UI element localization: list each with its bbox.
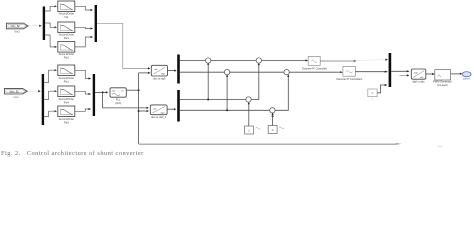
label of K2 bbox=[279, 127, 284, 129]
sum S2 bbox=[224, 70, 229, 75]
svg-text:Fltr2: Fltr2 bbox=[64, 55, 70, 59]
label SecondOrder Fltr4 bbox=[59, 97, 75, 104]
filter F4 (SecondOrder Fla1) bbox=[58, 65, 75, 76]
vertical wire W4 branch up to sum S2 bbox=[226, 76, 228, 111]
wire W2 (Vq B2) bar B1 to sum S2, S6, PI2 bbox=[180, 71, 342, 73]
port tick mux M3 input1 bbox=[385, 59, 388, 61]
wire K2 up to sum S5 bbox=[272, 114, 274, 126]
wire M1 to abc-to-dq0 (abc input) bbox=[97, 24, 148, 69]
demux bar D2 bbox=[42, 74, 44, 125]
wire U3 to PWM generator bbox=[426, 73, 434, 75]
wire F6 to mux bar M2 bbox=[75, 109, 91, 111]
junction node wt top bbox=[138, 89, 140, 91]
mux bar M1 bbox=[95, 5, 97, 42]
wire W3 (Vd B1) bar B2 to sum S4 bbox=[180, 99, 249, 101]
svg-text:com: com bbox=[13, 95, 19, 99]
abc to dq0_1 block (transform U2) bbox=[150, 105, 167, 115]
label SecondOrder Fltr1 bbox=[59, 33, 75, 40]
vertical wire W3 branch up to sum S1 bbox=[207, 64, 209, 100]
filter F1 (SecondOrder Fla) bbox=[58, 1, 75, 12]
wire tagB to demux bar D2 bbox=[28, 90, 37, 92]
svg-text:Vabc_B1: Vabc_B1 bbox=[9, 90, 19, 93]
filter F2 (SecondOrder Fltr1) bbox=[58, 22, 75, 33]
mux bar M2 bbox=[93, 74, 95, 116]
bus bar B1 (dq of B2 voltages) bbox=[177, 55, 180, 84]
svg-text:abc to dq0: abc to dq0 bbox=[153, 77, 166, 81]
PI controller 2 (PI2) bbox=[343, 66, 356, 76]
junction dot on K2 wire bbox=[272, 115, 274, 117]
wire PLL wt output to vertical distribution bbox=[126, 89, 138, 91]
wire F3 to mux bar M1 bbox=[75, 37, 93, 47]
wire tagA to demux bar1 bbox=[29, 25, 39, 27]
label SecondOrder Fltr5 bbox=[59, 117, 75, 124]
svg-text:448: 448 bbox=[437, 145, 443, 149]
wire D2 to filter F4 bbox=[44, 70, 56, 82]
label SecondOrder Fltr2 bbox=[59, 52, 75, 59]
filter F5 (SecondOrder Fltr4) bbox=[58, 86, 75, 97]
wire F5 to mux bar M2 bbox=[75, 91, 91, 94]
sum S5 bbox=[270, 108, 275, 113]
svg-text:Fla: Fla bbox=[64, 15, 68, 19]
caption: Fig. 2. Control architecture of shunt converter bbox=[1, 150, 401, 157]
wire wt to dq0-to-abc input2 (faded stub) bbox=[400, 74, 408, 76]
svg-text:(2-Level): (2-Level) bbox=[437, 83, 447, 87]
svg-text:0: 0 bbox=[372, 98, 374, 100]
wire D1 to filter F3 bbox=[45, 35, 56, 47]
svg-text:Fltr1: Fltr1 bbox=[64, 36, 70, 40]
wire K3 to mux M3 bbox=[377, 85, 386, 93]
wt vertical wire bbox=[138, 73, 140, 144]
wt bottom routing wire bbox=[139, 143, 398, 145]
wire U2 out to bus bar B2 bbox=[167, 108, 175, 110]
wire PI2 out to mux M3 bbox=[355, 71, 387, 73]
abc to dq0 block (transform U1) bbox=[151, 65, 167, 76]
sum S3 bbox=[256, 58, 261, 63]
PLL block bbox=[110, 88, 126, 97]
svg-text:abc to dq0_1: abc to dq0_1 bbox=[151, 115, 167, 119]
sum S4 bbox=[246, 97, 251, 102]
sum S5 output up to sum S6 bbox=[272, 76, 288, 111]
From tag Vabc B1 bbox=[5, 88, 28, 94]
sum S4 output up to sum S3 bbox=[249, 64, 259, 100]
output port oval pulses bbox=[462, 72, 471, 77]
svg-text:wt: wt bbox=[121, 90, 124, 93]
PWM Generator block bbox=[435, 70, 451, 80]
wire F2 to mux bar M1 bbox=[75, 27, 93, 28]
svg-text:Fltr4: Fltr4 bbox=[64, 100, 70, 104]
constant 0 block (K3) bbox=[368, 89, 377, 97]
sum S1 bbox=[206, 58, 211, 63]
sum S6 bbox=[284, 70, 289, 75]
svg-text:(3ph): (3ph) bbox=[115, 101, 121, 105]
label of K1 bbox=[256, 128, 261, 130]
wire D1 to filter F1 bbox=[45, 6, 56, 11]
From tag Vabc B2 bbox=[7, 23, 29, 29]
svg-text:pulses: pulses bbox=[463, 78, 471, 81]
svg-text:Vw2: Vw2 bbox=[14, 29, 20, 33]
wire W1 (Vd B2) bar B1 to sum S1, S3, PI1 bbox=[180, 60, 307, 62]
svg-text:Vabc_B2: Vabc_B2 bbox=[10, 25, 20, 28]
junction node at 102.6,92.4 bbox=[102, 91, 104, 93]
label PWM Generator (2-Level) bbox=[433, 80, 452, 87]
junction node on W3 bbox=[207, 99, 209, 101]
constant Vd ref (K1) bbox=[245, 126, 254, 134]
svg-text:Discrete PI Controller: Discrete PI Controller bbox=[302, 66, 327, 70]
filter F3 (SecondOrder Fltr2) bbox=[58, 42, 75, 53]
constant Vq ref (K2) bbox=[268, 126, 277, 134]
svg-text:Fltr5: Fltr5 bbox=[64, 121, 70, 125]
wire M2 to PLL input (with branch junction) bbox=[95, 91, 106, 93]
wire PI1 out toward mux M3 (faded) bbox=[320, 60, 356, 62]
dq0 to abc block (transform U3) bbox=[411, 69, 426, 79]
wire D1 to filter F2 bbox=[45, 23, 56, 27]
wire wt to abc-to-dq0_1 wt input bbox=[139, 110, 148, 112]
wire K1 up to sum S4 bbox=[248, 103, 250, 126]
wire D2 to filter F5 bbox=[44, 91, 56, 99]
wire PWM to output port bbox=[451, 73, 461, 75]
junction node wt mid bbox=[138, 110, 140, 112]
bus bar B2 (dq of B1 voltages) bbox=[177, 90, 180, 122]
filter F6 (SecondOrder Fltr5) bbox=[58, 106, 75, 117]
junction node on W4 bbox=[226, 109, 228, 111]
wire wt to abc-to-dq0 wt input bbox=[139, 72, 149, 74]
wire F1 to mux bar M1 bbox=[75, 6, 93, 10]
mux bar M3 bbox=[389, 53, 392, 87]
svg-text:Fla1: Fla1 bbox=[64, 80, 70, 84]
demux bar D1 bbox=[43, 7, 45, 41]
wire F4 to mux bar M2 bbox=[75, 70, 91, 78]
PI controller 1 (PI1) bbox=[308, 56, 320, 65]
wire D2 to filter F6 bbox=[44, 111, 56, 116]
wire U1 out to bus bar B1 bbox=[168, 70, 176, 72]
label PLL (3ph) bbox=[115, 98, 121, 105]
svg-text:Discrete PI Controller1: Discrete PI Controller1 bbox=[336, 77, 363, 81]
wire W4 (Vq B1) bar B2 to sum S5 bbox=[180, 109, 273, 111]
svg-text:dq0 to abc: dq0 to abc bbox=[412, 79, 425, 83]
wire branch M2 to abc-to-dq0_1 abc input bbox=[103, 92, 148, 108]
label SecondOrder Fla bbox=[59, 12, 75, 19]
label SecondOrder Fla1 bbox=[59, 76, 75, 83]
wire M3 out to dq0-to-abc input1 bbox=[391, 70, 409, 72]
